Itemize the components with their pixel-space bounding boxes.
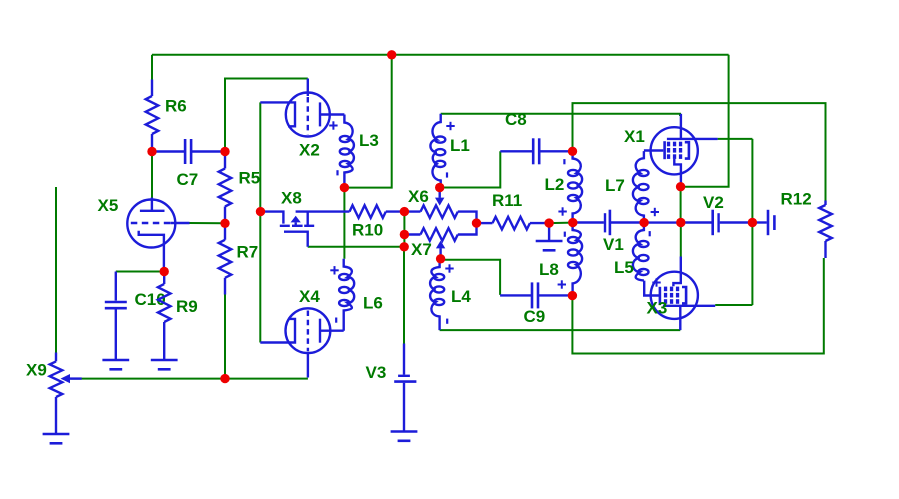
svg-text:L4: L4 [451, 287, 471, 306]
wire top rail right drop to X1 cathode node [681, 55, 729, 187]
svg-text:L1: L1 [450, 136, 470, 155]
wire X3 plate stub [715, 304, 752, 306]
svg-text:R11: R11 [492, 191, 522, 210]
wire X5 grid to R5/R7 node [189, 222, 225, 224]
node V2 right/plate riser [748, 218, 757, 227]
svg-text:X5: X5 [98, 196, 119, 215]
svg-text:V3: V3 [366, 363, 387, 382]
svg-text:X7: X7 [411, 240, 432, 259]
wire R6 top drop [151, 55, 153, 80]
wire X1 cathode node down to rail node [680, 187, 682, 223]
capacitor C8 [500, 110, 572, 164]
wire L4 bottom to X3 bottom [440, 329, 681, 331]
svg-text:X1: X1 [624, 127, 645, 146]
pentode X1 [624, 114, 718, 187]
wire node column R10-X7-source [403, 212, 405, 247]
node C8/L2 [568, 147, 577, 156]
resistor R12 [781, 190, 832, 259]
node X6-X7/R11 [472, 218, 481, 227]
wire C8/L2 node up and over to R12 top [573, 103, 826, 200]
node R5/R7/X5 grid [220, 219, 229, 228]
node V2 left/X3 top [676, 218, 685, 227]
node L3/L6/supply [340, 183, 349, 192]
ground under C10 [102, 360, 129, 369]
MOSFET X8 [261, 189, 350, 247]
capacitor C10 [105, 272, 166, 360]
svg-text:C8: C8 [505, 110, 527, 129]
svg-text:R5: R5 [239, 169, 261, 188]
svg-text:X9: X9 [26, 361, 47, 380]
wire R11 node to L2 node [549, 222, 573, 225]
resistor R9 [158, 272, 198, 360]
inductor L4 [430, 260, 471, 330]
node L2/L8/V1 [568, 218, 577, 227]
svg-text:X3: X3 [647, 299, 668, 318]
inductor L5 [614, 223, 661, 287]
svg-text:X8: X8 [281, 189, 302, 208]
wire C9/L8 node to R12 bottom [572, 258, 823, 354]
capacitor C9 [500, 282, 572, 326]
node V1/L7/L5 [639, 218, 648, 227]
node supply rail / riser [387, 50, 396, 59]
wire R7 bottom to ground rail [224, 294, 226, 379]
resistor R10 [350, 205, 405, 239]
resistor R5 [219, 152, 261, 224]
triode X2 [260, 79, 344, 160]
ground under X9 [43, 434, 70, 443]
node L1/X6 wiper [435, 183, 444, 192]
svg-text:R7: R7 [237, 243, 259, 262]
wire node C7-R5 up and over to X2 grid [225, 79, 308, 152]
svg-text:C7: C7 [177, 170, 199, 189]
wire X1 plate drop through V2 node to X3 plate [751, 139, 753, 305]
node X5 cathode/C10/R9 [160, 267, 169, 276]
inductor L3 [329, 115, 379, 188]
ground at R11 node [536, 223, 563, 250]
svg-text:L5: L5 [614, 258, 634, 277]
svg-text:V2: V2 [703, 193, 724, 212]
svg-text:L8: L8 [539, 260, 559, 279]
svg-text:L2: L2 [545, 175, 565, 194]
wire X1 plate stub [718, 138, 753, 140]
wire rail node down to X3 top [680, 223, 682, 257]
resistor R11 [477, 191, 550, 229]
inductor L7 [605, 151, 659, 223]
node X1 cathode [676, 182, 685, 191]
svg-text:R12: R12 [781, 190, 812, 209]
node R10/X6 [400, 207, 409, 216]
svg-text:X4: X4 [299, 287, 320, 306]
wire X5 cathode node to C10 [116, 271, 164, 273]
svg-text:L3: L3 [359, 131, 379, 150]
battery V2 [681, 193, 752, 235]
node R11/ground [544, 218, 553, 227]
wire L1 node to C8 riser [440, 151, 501, 187]
wire L5/L7 node to X1 column node [644, 221, 681, 223]
wire bottom ground rail [71, 378, 308, 380]
node R7/ground rail [220, 374, 229, 383]
node X8 source/V3 [400, 242, 409, 251]
svg-text:X2: X2 [299, 141, 320, 160]
wire X8 source to node X7 [308, 246, 405, 248]
ground under V3 [391, 432, 418, 441]
node L8/C9 [568, 291, 577, 300]
triode X5 [98, 196, 190, 272]
inductor L6 [330, 259, 383, 331]
pentode X3 [644, 257, 715, 331]
resistor R6 [146, 80, 187, 152]
wire node X7-wiper to C9 riser [441, 260, 501, 295]
node C7/R5 [220, 147, 229, 156]
capacitor C7 [152, 139, 225, 189]
svg-text:R9: R9 [176, 297, 198, 316]
wire top supply rail [152, 54, 729, 56]
node X7 wiper/L4 [436, 254, 445, 263]
svg-text:L7: L7 [605, 176, 625, 195]
triode X4 [260, 287, 343, 378]
wire supply riser to L3 node [344, 55, 391, 188]
wire L1 top rail to X1 grid [441, 114, 680, 116]
wire dot to X5 plate [151, 152, 153, 198]
wire node down to battery V3 [403, 247, 405, 344]
battery V3 [366, 344, 417, 431]
potentiometer X6 [404, 187, 476, 223]
node X7 left [400, 230, 409, 239]
wire X9 top column [55, 187, 57, 353]
inductor L8 [539, 223, 582, 296]
resistor R7 [219, 223, 259, 294]
potentiometer X7 [404, 223, 476, 259]
ground under R9 [151, 360, 178, 369]
inductor L2 [545, 151, 583, 222]
wire X2 plate drop to X8 gate node and X4 [259, 102, 261, 342]
svg-text:V1: V1 [603, 235, 624, 254]
battery V1 [573, 210, 644, 254]
svg-text:C9: C9 [524, 307, 546, 326]
node X8 gate [256, 207, 265, 216]
svg-text:R10: R10 [352, 221, 383, 240]
inductor L1 [430, 114, 469, 188]
potentiometer X9 [26, 353, 82, 434]
svg-text:X6: X6 [408, 187, 429, 206]
ground right of V2 [752, 210, 774, 235]
wire L3 node down to L6 [343, 188, 345, 259]
svg-text:L6: L6 [363, 294, 383, 313]
svg-text:R6: R6 [165, 97, 187, 116]
node R6/C7/X5 plate [147, 147, 156, 156]
